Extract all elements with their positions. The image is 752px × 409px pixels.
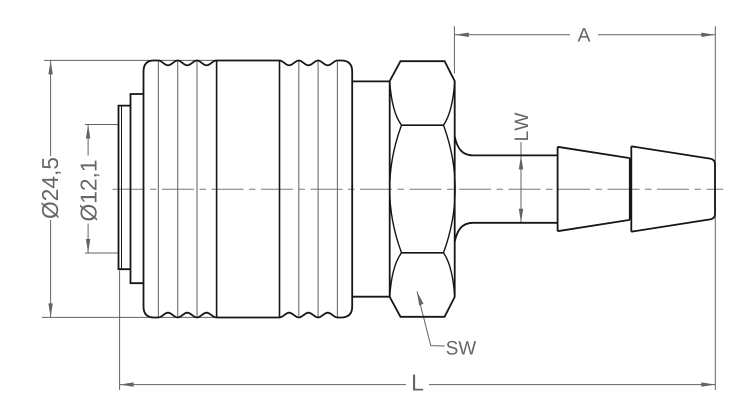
label phi12,1 (80, 161, 99, 221)
neck bottom line (352, 296, 390, 298)
dimension phi24,5 (48, 60, 52, 317)
extension line phi12.1 top (85, 124, 118, 126)
label A (578, 28, 591, 41)
dimension phi12,1 (86, 125, 90, 254)
dimension A (454, 26, 715, 390)
hex middle facet arcs (390, 125, 455, 253)
dimension L (120, 271, 716, 391)
neck top line (352, 80, 390, 82)
extension line phi12.1 bottom (85, 252, 118, 254)
hex bottom facet arcs (390, 253, 455, 297)
extension line phi24.5 top (44, 59, 216, 61)
sleeve section boundary line left (216, 61, 218, 318)
front pilot face (119, 106, 131, 270)
dimension LW (519, 142, 523, 223)
leader SW (417, 292, 445, 347)
sleeve outline with knurled waves (144, 61, 353, 318)
hex top facet arcs (390, 81, 455, 125)
stem bottom line (473, 222, 558, 224)
sleeve section boundary line right (279, 61, 281, 318)
stem fillet top (455, 137, 473, 156)
knurl groove lines section 2 (299, 62, 338, 317)
hex nut SW outline (390, 61, 455, 317)
barb 1 (558, 147, 630, 231)
extension line phi24.5 bottom (42, 316, 220, 318)
barb 2 (631, 146, 715, 231)
knurl groove lines section 1 (158, 62, 197, 317)
hex facet line upper (402, 124, 444, 126)
stem top line (473, 154, 558, 156)
label L (413, 375, 423, 391)
centerline (113, 188, 724, 190)
label SW (447, 341, 477, 355)
front step collar (131, 94, 144, 283)
label LW (515, 113, 528, 140)
stem fillet bottom (455, 223, 473, 242)
label phi24,5 (42, 158, 61, 218)
hex facet line lower (402, 252, 444, 254)
pilot chamfer line (121, 106, 123, 270)
